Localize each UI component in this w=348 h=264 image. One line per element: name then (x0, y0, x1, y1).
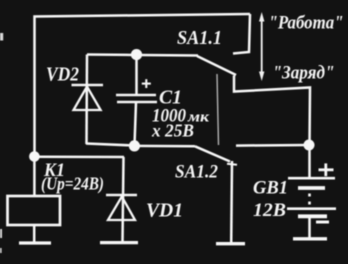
wire SA1.2 pole down to terminal (230, 161, 233, 244)
battery dotted link (308, 194, 311, 205)
wire K1 node to VD1 top (34, 156, 124, 159)
scan edge artifacts (0, 33, 3, 253)
switch SA1.2 arm (195, 146, 230, 161)
svg-text:VD1: VD1 (146, 200, 183, 222)
arrow Работа/Заряд (261, 19, 263, 73)
svg-text:"Заряд": "Заряд" (273, 63, 335, 84)
terminal bar GB1 (293, 237, 327, 240)
capacitor C1 (116, 55, 157, 145)
svg-text:(Up=24В): (Up=24В) (41, 174, 104, 194)
junction node C (C1 top) (131, 49, 142, 60)
arrowheads (259, 12, 264, 81)
mech linkage SA1 (217, 74, 219, 145)
wire SA1.1 upper contact drop (233, 14, 250, 54)
battery GB1 (287, 145, 336, 239)
svg-text:VD2: VD2 (46, 64, 79, 86)
battery minus mark (316, 221, 329, 224)
svg-text:GB1: GB1 (253, 178, 288, 199)
wire VD2 bottom to node (86, 144, 134, 146)
svg-text:"Работа": "Работа" (269, 13, 344, 34)
wire top bus (35, 14, 251, 157)
svg-text:x 25В: x 25В (151, 121, 194, 141)
svg-text:SA1.1: SA1.1 (177, 28, 222, 49)
junction node D (battery plus) (304, 140, 315, 151)
junction node A (K1 top) (29, 151, 40, 162)
terminal bar VD1 (100, 241, 138, 244)
relay K1 coil (8, 160, 61, 242)
terminal bar SA1.2 (216, 242, 245, 245)
diode VD2 (72, 55, 104, 145)
svg-text:12В: 12В (253, 200, 286, 221)
svg-text:SA1.2: SA1.2 (175, 162, 218, 183)
terminal bar K1 (19, 241, 51, 244)
svg-text:C1: C1 (159, 87, 182, 109)
wire VD2/C1 top bus (87, 55, 198, 56)
switch SA1.2 tip tick (227, 164, 237, 165)
battery plus mark (319, 163, 334, 176)
junction node B (C1 bottom) (129, 140, 140, 151)
switch SA1.1 arm (197, 56, 236, 75)
wire SA1.2 upper contact to battery node (236, 144, 309, 147)
wire C1 node to SA1.2 pole (134, 145, 195, 148)
diode VD1 (106, 157, 137, 242)
C1 plus mark (142, 79, 151, 88)
wire SA1.1 lower contact to battery plus (234, 76, 310, 146)
